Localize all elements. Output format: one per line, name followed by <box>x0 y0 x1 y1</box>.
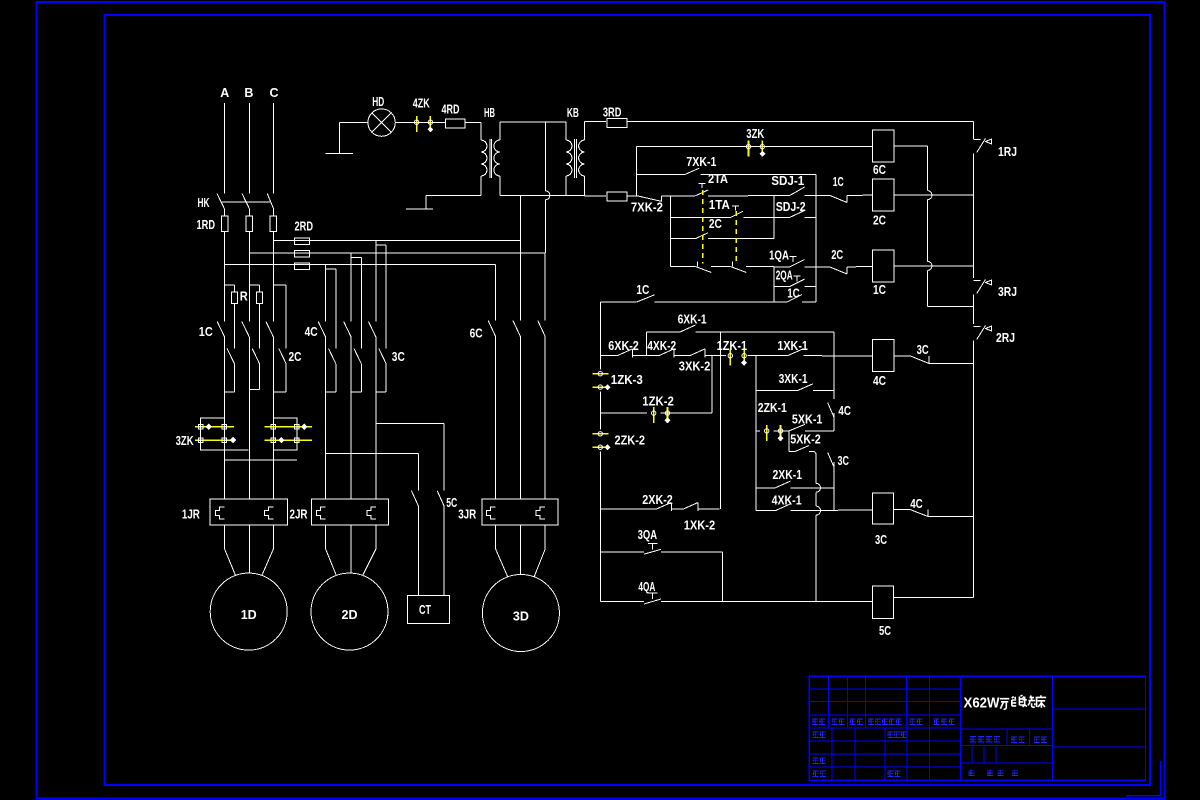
wires through 3ZK down to overloads <box>224 392 226 499</box>
svg-text:1ZK-1: 1ZK-1 <box>717 339 748 353</box>
svg-text:2C: 2C <box>831 248 843 262</box>
svg-text:3JR: 3JR <box>458 508 476 522</box>
svg-text:6XK-2: 6XK-2 <box>608 339 639 353</box>
svg-text:4C: 4C <box>838 404 851 418</box>
svg-text:4RD: 4RD <box>442 103 460 117</box>
svg-text:1C: 1C <box>636 283 649 297</box>
wire tap vertical x520 from secondary <box>519 195 521 240</box>
svg-text:1C: 1C <box>873 283 886 297</box>
svg-text:B: B <box>244 86 253 100</box>
svg-text:1C: 1C <box>199 325 213 339</box>
svg-text:2C: 2C <box>873 214 886 228</box>
wire CT branch left <box>326 452 419 454</box>
wire lamp left <box>340 122 368 124</box>
wire x720 vertical <box>720 332 722 509</box>
wire link under 3ZK <box>225 459 297 461</box>
svg-text:3XK-1: 3XK-1 <box>779 372 808 386</box>
svg-text:3ZK: 3ZK <box>746 127 764 141</box>
contactor coil 6C <box>872 130 893 162</box>
svg-text:CT: CT <box>419 603 431 617</box>
contactor coil 4C <box>872 340 893 372</box>
svg-text:1RD: 1RD <box>197 218 216 232</box>
label shen he <box>812 758 818 764</box>
svg-text:6C: 6C <box>873 163 886 177</box>
svg-text:HD: HD <box>372 95 384 109</box>
svg-text:3C: 3C <box>392 350 405 364</box>
contactor coil 5C <box>873 586 894 619</box>
title block middle dividers <box>960 728 1052 730</box>
wire x833 vertical upper <box>833 332 835 399</box>
wire CT branch right <box>376 422 444 424</box>
row 2TA / SDJ-1 <box>671 195 696 197</box>
wire x712 vertical <box>711 356 713 414</box>
3ZK left group <box>195 426 234 428</box>
svg-text:HK: HK <box>198 196 210 210</box>
wire HB secondary bottom <box>499 176 501 195</box>
svg-text:KB: KB <box>567 106 579 120</box>
wire 2C coil right <box>894 194 974 196</box>
fold mark bottom-right <box>1126 761 1161 796</box>
overload 2JR <box>311 499 388 525</box>
svg-text:3RJ: 3RJ <box>998 285 1017 299</box>
svg-text:1ZK-3: 1ZK-3 <box>611 373 643 387</box>
svg-text:A: A <box>220 86 229 100</box>
row 1TA / SDJ-2 <box>671 217 731 219</box>
svg-text:2RJ: 2RJ <box>996 331 1015 345</box>
wire coil return vertical x927 with hops <box>927 146 929 190</box>
label gong zhang di zhang <box>968 770 974 776</box>
label gong yi <box>813 771 819 777</box>
svg-text:1QA: 1QA <box>769 249 789 263</box>
motor 2D <box>311 573 388 650</box>
svg-text:5C: 5C <box>879 624 891 638</box>
fuse 7RD <box>585 195 607 197</box>
svg-text:1TA: 1TA <box>709 198 730 212</box>
svg-text:2JR: 2JR <box>290 508 308 522</box>
svg-text:R: R <box>240 290 248 304</box>
svg-text:3RD: 3RD <box>603 106 622 120</box>
contact 5C left pole <box>411 491 418 506</box>
svg-text:6C: 6C <box>470 327 483 341</box>
row 2C auxiliary <box>671 238 696 240</box>
svg-text:4ZK: 4ZK <box>413 97 430 111</box>
contactor coil 2C <box>872 179 893 211</box>
wire x670 vertical <box>670 196 672 267</box>
wire 6C coil row <box>637 146 873 148</box>
motor 3D <box>482 575 559 652</box>
svg-text:2XK-2: 2XK-2 <box>642 493 673 507</box>
svg-text:5C: 5C <box>446 496 457 510</box>
svg-text:3D: 3D <box>513 609 529 623</box>
overload contact 3RJ <box>974 280 981 282</box>
wire rail bottom to 5C coil <box>894 597 974 599</box>
wire tap vertical x545 with hop <box>544 122 546 191</box>
ground at lamp <box>339 123 341 154</box>
svg-text:1XK-2: 1XK-2 <box>684 519 716 533</box>
overload 1JR <box>210 499 288 525</box>
ground at HB <box>406 208 433 210</box>
contactor coil 1C <box>872 250 893 282</box>
wire feed row3 from A <box>225 264 496 266</box>
wire phase B vertical <box>248 103 250 193</box>
svg-text:7XK-1: 7XK-1 <box>686 155 716 169</box>
join loops below 1C/2C <box>225 391 235 393</box>
svg-text:2XK-1: 2XK-1 <box>773 468 803 482</box>
title block revision table <box>809 676 1145 780</box>
motor 1D <box>210 573 287 650</box>
svg-text:1XK-1: 1XK-1 <box>777 339 808 353</box>
title block header labels <box>812 719 818 725</box>
wire HB primary bottom to ground <box>426 194 481 196</box>
wire phase A vertical <box>224 103 226 193</box>
wire feed row2 from B <box>249 252 545 254</box>
svg-text:7XK-2: 7XK-2 <box>631 201 663 215</box>
wire x755 vertical <box>755 356 757 511</box>
transformer CT <box>408 595 450 623</box>
label zhong liang <box>1011 737 1017 743</box>
svg-text:2RD: 2RD <box>295 220 314 234</box>
svg-text:1JR: 1JR <box>182 508 200 522</box>
svg-text:3XK-2: 3XK-2 <box>679 360 711 374</box>
3ZK right group <box>264 426 312 428</box>
label biao zhun hua <box>887 732 893 738</box>
label she ji <box>812 732 818 738</box>
svg-text:HB: HB <box>484 106 495 120</box>
svg-text:2C: 2C <box>289 350 302 364</box>
button stop 1 <box>697 261 699 266</box>
svg-text:3ZK: 3ZK <box>176 434 194 448</box>
overload 3JR <box>482 499 558 525</box>
svg-text:4QA: 4QA <box>638 580 655 594</box>
svg-text:C: C <box>269 86 278 100</box>
title block frame <box>809 676 1145 780</box>
button stop 2 <box>732 261 734 266</box>
svg-text:2QA: 2QA <box>776 269 793 283</box>
wire 6C coil right <box>894 145 928 147</box>
wire 1C coil right <box>894 265 974 267</box>
svg-text:3C: 3C <box>875 533 887 547</box>
svg-text:5XK-2: 5XK-2 <box>790 433 821 447</box>
svg-text:3C: 3C <box>917 343 929 357</box>
svg-text:4C: 4C <box>873 374 886 388</box>
svg-text:3C: 3C <box>838 454 850 468</box>
row stop buttons <box>671 265 696 267</box>
svg-text:2ZK-2: 2ZK-2 <box>615 434 646 448</box>
wire x773 vertical lower <box>773 266 775 302</box>
overload contact 2RJ <box>974 326 981 328</box>
label bi li <box>1034 737 1040 743</box>
title text CJK milling machine <box>1000 695 1046 709</box>
label pi zhun <box>887 771 893 777</box>
wire control feed x636 vertical <box>636 147 638 196</box>
svg-text:2ZK-1: 2ZK-1 <box>758 401 787 415</box>
wire left control vertical x600 <box>599 302 601 370</box>
wire x815 vertical <box>815 196 817 302</box>
svg-text:1C: 1C <box>833 175 844 189</box>
svg-text:4C: 4C <box>910 497 923 511</box>
svg-text:4C: 4C <box>305 325 318 339</box>
wire phase C vertical <box>272 103 274 193</box>
svg-text:2D: 2D <box>342 608 358 622</box>
wire right rail upper <box>973 122 975 139</box>
label jie duan biao ji <box>970 736 976 742</box>
wire top control rail <box>627 121 974 123</box>
overload contact 1RJ <box>974 139 981 141</box>
wire HB secondary top <box>499 122 501 140</box>
svg-text:1ZK-2: 1ZK-2 <box>642 395 674 409</box>
wire x722 vertical <box>721 552 723 602</box>
linkage dashed 2TA <box>702 190 704 263</box>
contactor coil 3C <box>873 493 894 524</box>
svg-text:4XK-2: 4XK-2 <box>647 339 676 353</box>
svg-text:SDJ-1: SDJ-1 <box>771 174 804 188</box>
wire x773 vertical upper <box>773 196 775 239</box>
svg-text:3QA: 3QA <box>638 528 658 542</box>
svg-text:X62W: X62W <box>964 696 1000 712</box>
linkage dashed 1TA <box>735 211 737 263</box>
wire x816 vertical with hops <box>815 457 817 483</box>
svg-text:5XK-1: 5XK-1 <box>792 413 823 427</box>
title block right dividers <box>1052 708 1145 710</box>
wire feed row1 from C <box>273 240 520 242</box>
svg-text:6XK-1: 6XK-1 <box>678 313 707 327</box>
svg-text:2TA: 2TA <box>708 172 728 186</box>
svg-text:2C: 2C <box>709 217 722 231</box>
svg-text:1RJ: 1RJ <box>998 145 1017 159</box>
svg-text:1D: 1D <box>241 608 257 622</box>
